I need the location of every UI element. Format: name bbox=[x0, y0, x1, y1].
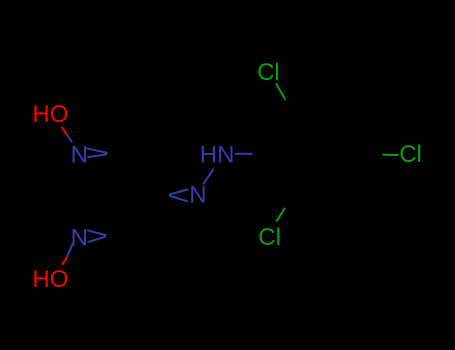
double bond C=N top (line 1) bbox=[86, 148, 107, 153]
bond N-O bottom (O half, red) bbox=[62, 257, 67, 265]
svg-text:Cl: Cl bbox=[258, 224, 281, 251]
bond N-C1 to ring (N half, blue) bbox=[235, 153, 253, 155]
bond C2-Cl top (Cl half, green) bbox=[276, 83, 286, 100]
double bond C=N hydrazone (line 2) bbox=[169, 196, 188, 202]
svg-text:N: N bbox=[189, 182, 206, 209]
bond N-N hydrazine bbox=[203, 169, 214, 185]
bond N-O bottom (N half, blue) bbox=[67, 243, 73, 257]
svg-text:HO: HO bbox=[32, 266, 68, 293]
double bond C=N top (line 2) bbox=[87, 154, 107, 157]
double bond C=N bottom (line 1) bbox=[87, 230, 106, 235]
svg-text:HO: HO bbox=[32, 101, 68, 128]
svg-text:Cl: Cl bbox=[257, 59, 280, 86]
svg-text:N: N bbox=[71, 224, 88, 251]
svg-text:HN: HN bbox=[200, 142, 235, 169]
svg-text:Cl: Cl bbox=[399, 141, 422, 168]
svg-text:N: N bbox=[71, 142, 88, 169]
bond O-N top (O half, red) bbox=[62, 127, 67, 135]
double bond C=N bottom (line 2) bbox=[88, 237, 106, 243]
bond C6-Cl bottom (Cl half, green) bbox=[276, 208, 285, 222]
double bond C=N hydrazone (line 1) bbox=[169, 189, 188, 194]
bond O-N top (N half, blue) bbox=[67, 135, 72, 142]
bond C4-Cl right (Cl half, green) bbox=[382, 154, 398, 156]
